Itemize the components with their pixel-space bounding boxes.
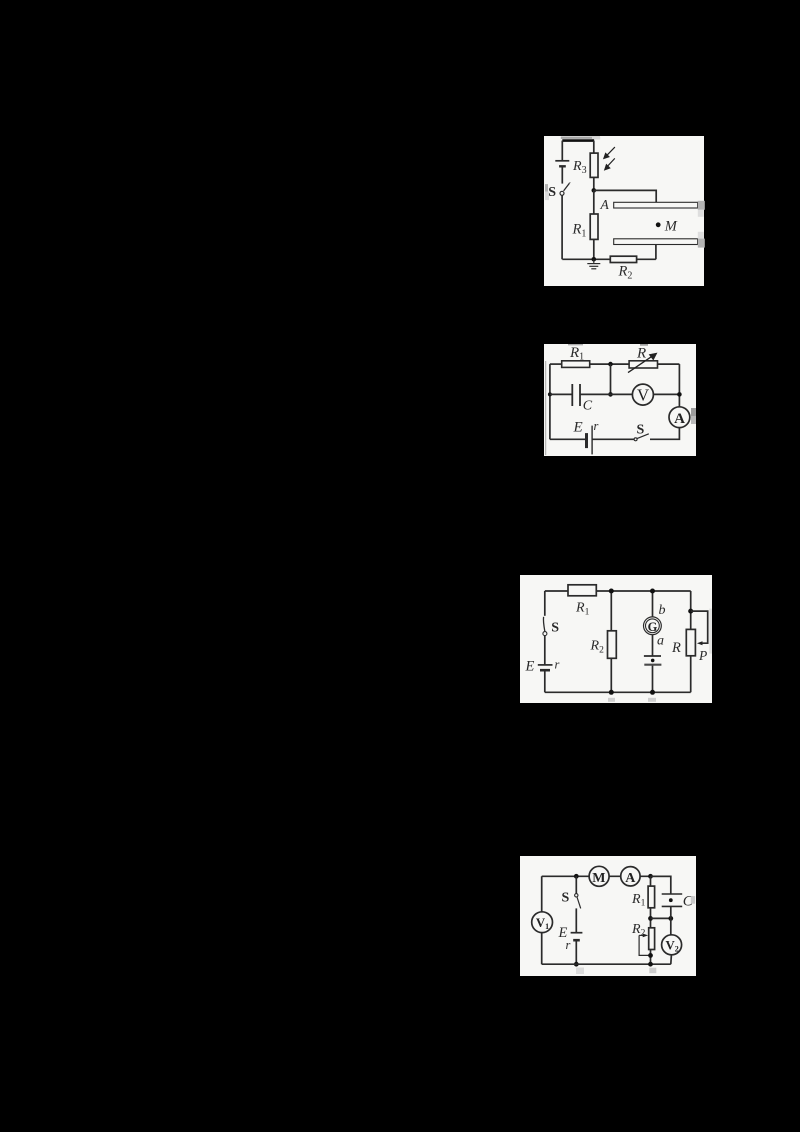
node dot right middle	[677, 392, 682, 397]
node dot R1 branch bottom	[648, 962, 653, 967]
switch S blade	[563, 183, 569, 191]
cell top line	[644, 655, 661, 657]
wire: node drop	[610, 364, 612, 394]
wire: R branch right rail	[690, 591, 692, 692]
resistor R1	[562, 360, 590, 367]
svg-text:R1: R1	[569, 345, 584, 363]
svg-text:S: S	[548, 185, 556, 200]
svg-text:P: P	[698, 648, 707, 663]
galvanometer G	[644, 617, 662, 635]
wire: cross link	[650, 917, 670, 919]
resistor R1	[648, 886, 655, 908]
svg-text:A: A	[625, 871, 636, 886]
node dot G bottom	[650, 690, 655, 695]
node dot mid right	[668, 916, 673, 921]
wiper arrowhead P	[697, 641, 703, 645]
grey scan squares right edge	[691, 408, 696, 416]
wire: S branch	[575, 876, 577, 893]
battery (left branch)	[555, 160, 569, 162]
switch contact circle	[634, 437, 637, 440]
battery E r : long plate	[591, 425, 593, 454]
point M dot	[655, 222, 660, 227]
resistor R	[686, 629, 695, 655]
svg-text:E: E	[525, 659, 535, 675]
panel 4: motor circuit	[520, 856, 697, 976]
wire: mid node to V2	[669, 918, 671, 934]
wire: bottom rail	[545, 691, 691, 693]
svg-text:b: b	[659, 603, 666, 618]
grey scan block left edge	[545, 184, 548, 192]
rheostat bypass wire	[639, 935, 650, 955]
ground symbol	[587, 259, 600, 269]
svg-text:A: A	[599, 197, 609, 212]
switch blade	[577, 897, 581, 908]
capacitor branch: top plate	[661, 893, 682, 895]
node dot S branch top	[573, 874, 578, 879]
svg-text:V: V	[637, 385, 649, 404]
svg-text:M: M	[663, 219, 677, 235]
wire: switch to battery	[575, 908, 577, 932]
wire: ammeter to bottom rail	[650, 427, 679, 439]
switch blade	[637, 433, 649, 438]
svg-text:r: r	[565, 938, 570, 952]
panel 1: photoresistor circuit	[544, 136, 705, 286]
svg-text:E: E	[573, 419, 583, 435]
grey scan bar	[560, 137, 599, 139]
node dot middle	[608, 392, 613, 397]
resistor R1	[568, 585, 596, 596]
node dot mid R1 branch	[648, 916, 653, 921]
battery short plate	[540, 669, 550, 672]
wire: V2 to bottom rail	[669, 955, 672, 964]
wire: R2 to plate stub	[636, 258, 655, 260]
wire: top rail	[545, 590, 691, 592]
node junction dot	[591, 188, 596, 193]
node dot top	[608, 361, 613, 366]
switch contact circle	[574, 894, 577, 897]
wire: voltmeter to right rail	[653, 393, 680, 395]
wire: right rail upper	[678, 364, 680, 407]
wire: R1 branch	[649, 876, 651, 964]
node dot R2 bottom	[609, 690, 614, 695]
switch contact circle	[543, 632, 547, 636]
voltmeter V	[632, 384, 653, 405]
svg-text:R1: R1	[571, 222, 586, 240]
wire: battery to switch	[561, 166, 563, 183]
wire: top rail right corner down	[650, 876, 670, 894]
cell bottom line	[644, 664, 661, 666]
wire: bottom rail left	[550, 438, 587, 440]
svg-text:C: C	[583, 398, 593, 413]
ammeter A	[620, 867, 639, 886]
wire: battery to switch	[592, 438, 634, 440]
battery long plate	[570, 932, 582, 934]
grey scan tick above R	[640, 344, 648, 345]
panel 2: capacitor + voltmeter circuit	[544, 344, 696, 456]
wire: top rail left segment	[550, 363, 562, 365]
battery short plate	[585, 433, 588, 448]
svg-text:S: S	[551, 621, 559, 636]
wire: R3 to node	[592, 177, 594, 190]
node dot R2 top	[609, 589, 614, 594]
variable resistor R	[629, 360, 657, 367]
wire: left drop from bus	[561, 141, 563, 161]
bottom rail wire	[562, 258, 610, 260]
node dot R2 bottom	[648, 953, 653, 958]
svg-text:r: r	[594, 419, 599, 433]
grey scan square right of top plate	[697, 201, 704, 210]
wire: R to right rail	[658, 363, 680, 365]
light arrow 2	[604, 158, 615, 170]
resistor R1	[590, 214, 598, 239]
light arrow 1	[603, 147, 615, 159]
wire: bottom rail	[541, 963, 670, 965]
grey scan tick above R1	[568, 344, 583, 345]
svg-text:G: G	[648, 620, 658, 634]
wire: left rail	[549, 364, 551, 439]
svg-text:R3: R3	[572, 159, 587, 176]
wire: battery to bottom rail	[544, 670, 546, 692]
ammeter A	[669, 406, 690, 427]
grey scan marks	[576, 968, 584, 975]
grey scan square right of bottom plate	[697, 232, 703, 239]
rheostat wiper arrow	[639, 934, 643, 936]
voltmeter V2	[661, 935, 681, 955]
svg-text:R: R	[671, 640, 681, 656]
wire: left rail	[540, 876, 542, 964]
wire: bottom plate stub down	[654, 245, 656, 260]
capacitor bottom plate	[613, 239, 697, 245]
capacitor top plate	[613, 202, 697, 208]
wire: node to R1	[592, 190, 594, 214]
node dot wiper tap	[688, 609, 693, 614]
svg-text:S: S	[561, 891, 569, 906]
resistor R2	[610, 256, 636, 262]
capacitor dot	[668, 898, 672, 902]
wire: G branch	[652, 591, 654, 692]
wire: bottom plate to mid node	[669, 906, 671, 918]
voltmeter V1	[531, 912, 552, 933]
wire: R1 to node	[590, 363, 629, 365]
wire: top rail	[541, 875, 670, 877]
svg-text:R2: R2	[617, 264, 632, 282]
ground junction dot	[591, 257, 596, 262]
svg-text:A: A	[674, 410, 685, 426]
switch blade	[543, 617, 544, 631]
wire: capacitor to voltmeter	[580, 393, 633, 395]
node dot R1 branch top	[648, 874, 653, 879]
wire: bus right drop to R3	[592, 141, 594, 154]
svg-text:r: r	[555, 658, 560, 672]
cell dot	[651, 659, 655, 663]
resistor R2	[648, 928, 654, 950]
svg-text:M: M	[592, 871, 605, 886]
R wiper arrow	[628, 353, 657, 373]
wiper loop wire	[691, 611, 708, 643]
svg-text:R2: R2	[590, 639, 605, 656]
grey scan marks below bottom rail	[608, 698, 615, 702]
resistor R2	[608, 631, 617, 659]
wire: middle rail left	[550, 393, 572, 395]
wire: switch to battery	[544, 636, 546, 665]
capacitor bottom plate	[661, 905, 682, 907]
battery short plate	[573, 939, 580, 942]
svg-text:R1: R1	[575, 601, 590, 618]
grey scan line left edge	[545, 361, 546, 455]
wire: left rail upper	[544, 591, 546, 616]
node dot G top	[650, 589, 655, 594]
wire: switch down to bottom rail	[561, 195, 563, 259]
wire: R1 to bottom rail	[592, 239, 594, 259]
battery E r : long plate	[538, 664, 553, 666]
resistor R3	[590, 153, 598, 177]
node dot bottom S branch	[573, 962, 578, 967]
svg-text:a: a	[657, 634, 664, 649]
wire: R2 branch	[610, 591, 612, 692]
node dot left middle	[548, 392, 552, 396]
svg-text:R: R	[636, 345, 646, 361]
wire: top thick bus	[562, 139, 594, 142]
capacitor C	[572, 384, 580, 406]
wire: node to plate stub	[593, 190, 655, 202]
grey scan strip right edge	[709, 609, 712, 654]
svg-text:R1: R1	[631, 892, 646, 909]
svg-text:S: S	[637, 422, 645, 437]
panel 3: galvanometer bridge circuit	[520, 575, 712, 703]
switch S contact circle	[560, 191, 564, 195]
motor M	[589, 866, 609, 886]
wire: battery to bottom rail	[575, 940, 577, 964]
